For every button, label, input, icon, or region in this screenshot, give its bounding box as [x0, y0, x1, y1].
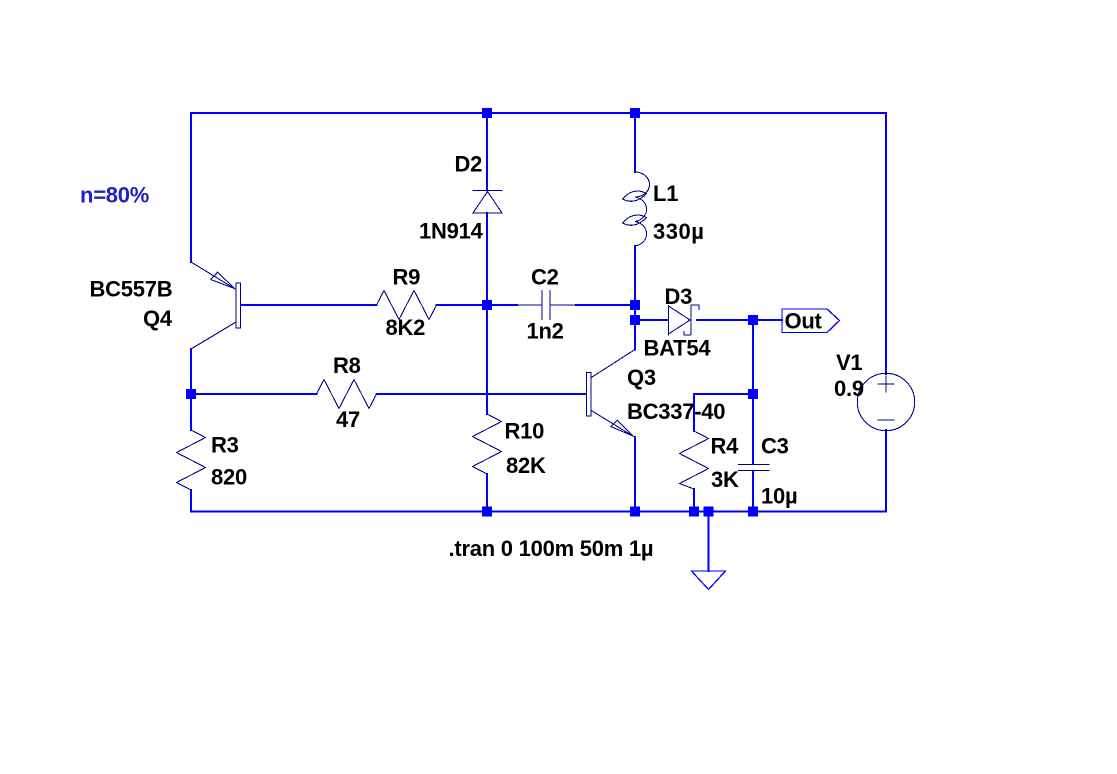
junction ground node: [704, 507, 714, 517]
wire Q4 emitter vertical: [190, 113, 192, 262]
wire D2 bottom to node B: [486, 213, 488, 305]
wire Q4 collector to node A: [190, 349, 192, 430]
junction node C lower: [630, 315, 640, 325]
ground symbol: [692, 571, 726, 590]
junction R10 bottom: [482, 507, 492, 517]
wire bottom rail: [191, 511, 886, 513]
svg-text:3K: 3K: [711, 467, 739, 492]
resistor R10 82K: [473, 414, 502, 474]
wire C3 top lead: [752, 394, 754, 464]
junction Out node: [748, 315, 758, 325]
svg-text:1N914: 1N914: [419, 219, 484, 244]
wire L1 bottom to node C: [634, 246, 636, 320]
svg-text:Q4: Q4: [143, 306, 173, 331]
wire ground stem: [708, 512, 710, 572]
svg-text:Out: Out: [785, 309, 823, 334]
svg-text:BC557B: BC557B: [90, 277, 173, 302]
output port flag Out: [782, 309, 840, 333]
wire R3 bottom: [190, 490, 192, 512]
wire R9 to node B: [437, 304, 518, 306]
svg-text:C2: C2: [531, 265, 559, 290]
resistor R4 3K: [680, 431, 709, 489]
wire D3 anode: [635, 319, 668, 321]
resistor R8 47: [317, 380, 377, 409]
svg-text:820: 820: [211, 465, 247, 490]
svg-text:Q3: Q3: [627, 365, 656, 390]
inductor L1 330u: [635, 172, 650, 246]
svg-text:R8: R8: [333, 353, 361, 378]
wire node D to R4: [694, 393, 753, 395]
svg-text:R10: R10: [505, 419, 545, 444]
svg-text:D3: D3: [665, 284, 693, 309]
wire D3 cathode to Out node: [697, 319, 782, 321]
svg-text:330µ: 330µ: [653, 219, 704, 244]
wire L1 top: [634, 113, 636, 172]
svg-text:0.9: 0.9: [834, 376, 864, 401]
wire right rail upper: [885, 113, 887, 374]
wire node B down to R10: [486, 305, 488, 414]
wire Q3 emitter vertical: [634, 437, 636, 512]
transistor Q4 BC557B pnp: [236, 283, 241, 328]
capacitor C3 10u: [738, 465, 770, 471]
svg-text:R4: R4: [711, 434, 740, 459]
junction node B: [482, 300, 492, 310]
svg-text:1n2: 1n2: [527, 319, 564, 344]
resistor R9 8K2: [377, 291, 437, 320]
svg-text:D2: D2: [455, 152, 483, 177]
svg-text:BAT54: BAT54: [644, 336, 712, 361]
wire Out node down to node D: [752, 320, 754, 394]
svg-text:n=80%: n=80%: [80, 183, 149, 208]
svg-text:8K2: 8K2: [386, 315, 426, 340]
capacitor C2 1n2: [517, 290, 576, 320]
wire R4 top lead: [693, 394, 695, 431]
wire R4 bottom lead: [693, 489, 695, 512]
diode D2 1N914: [473, 191, 503, 214]
svg-text:47: 47: [336, 407, 360, 432]
svg-text:82K: 82K: [506, 453, 546, 478]
wire node A to R8: [191, 393, 317, 395]
svg-text:BC337-40: BC337-40: [627, 399, 725, 424]
svg-text:V1: V1: [836, 350, 862, 375]
svg-text:C3: C3: [761, 434, 789, 459]
transistor Q3 BC337-40 npn: [587, 373, 592, 417]
junction node D: [748, 389, 758, 399]
junction C3 bottom: [748, 507, 758, 517]
wire top rail: [191, 112, 886, 114]
wire Q4 base to R9: [240, 304, 377, 306]
junction node C upper: [630, 300, 640, 310]
wire D2 top: [486, 113, 488, 190]
wire right rail lower: [885, 430, 887, 512]
junction R4 bottom: [689, 507, 699, 517]
wire node C to Q3 collector: [634, 320, 636, 350]
svg-text:.tran 0 100m 50m 1µ: .tran 0 100m 50m 1µ: [449, 536, 654, 561]
resistor R3 820: [177, 430, 206, 490]
wire R10 bottom: [486, 474, 488, 512]
wire C3 bottom lead: [752, 471, 754, 512]
junction node top D2: [482, 108, 492, 118]
svg-text:R9: R9: [393, 265, 421, 290]
svg-text:10µ: 10µ: [761, 484, 797, 509]
wire R8 to Q3 base: [377, 393, 588, 395]
junction node top L1: [630, 108, 640, 118]
svg-text:L1: L1: [653, 181, 678, 206]
wire C2 right to node C: [576, 304, 635, 306]
junction node A: [186, 389, 196, 399]
diode D3 BAT54 schottky: [669, 305, 700, 336]
svg-text:R3: R3: [211, 433, 239, 458]
voltage source V1 circle: [857, 373, 914, 430]
junction Q3 emitter bottom: [630, 507, 640, 517]
